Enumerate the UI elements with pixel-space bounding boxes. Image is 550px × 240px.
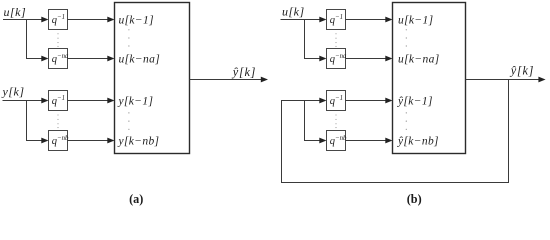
svg-text:u[k]: u[k] [4,5,27,19]
svg-text:ŷ[k]: ŷ[k] [509,64,534,78]
wire: yhat q^-1 to regressor box (b) [346,98,393,104]
wire: u branch down to q^-na (a) [27,20,34,59]
svg-text:u[k−1]: u[k−1] [398,14,433,26]
wire: feedback branch into q^-nb (b) [310,138,327,144]
wire: u branch down to q^-na (b) [305,20,312,59]
wire: feedback loop yhat (b) [282,80,509,183]
wire: feedback into q^-1 (b) [286,98,327,104]
wire: output yhat[k] (b) [466,77,546,83]
dots between yhat delay blocks (b) [335,114,336,128]
dots between u delay blocks (a) [57,33,58,47]
svg-text:ŷ[k−1]: ŷ[k−1] [397,96,433,108]
svg-text:y[k]: y[k] [2,85,25,99]
svg-text:u[k]: u[k] [282,4,305,18]
delay block q^-1 (yhat path, b) [327,91,346,111]
svg-text:(b): (b) [407,192,422,206]
regressor box (b) [393,3,466,154]
delay block q^-1 (y path, a) [49,91,68,111]
delay block q^-na (b) [327,49,348,69]
wire: q^-na to regressor box (a) [68,56,115,62]
wire: feedback branch down to q^-nb (b) [305,101,312,141]
dots yhat[k-1]..yhat[k-nb] (b) [406,112,407,130]
wire: u[k] input to q^-1 (a) [3,17,49,23]
wire: q^-nb to regressor box (a) [68,138,115,144]
wire: q^-1 to regressor box (a) [68,17,115,23]
svg-text:u[k−na]: u[k−na] [119,53,161,65]
svg-text:u[k−na]: u[k−na] [398,53,440,65]
wire: y branch into q^-nb (a) [32,138,49,144]
wire: q^-1 to regressor box (b) [346,17,393,23]
svg-text:ŷ[k−nb]: ŷ[k−nb] [397,135,439,147]
wire: y q^-1 to regressor box (a) [68,98,115,104]
dots between u delay blocks (b) [335,33,336,47]
dots u[k-1]..u[k-na] (a) [128,29,129,46]
wire: u branch into q^-na (b) [310,56,327,62]
dots between y delay blocks (a) [57,114,58,128]
wire: q^-na to regressor box (b) [346,56,393,62]
svg-text:u[k−1]: u[k−1] [119,14,154,26]
wire: y[k] input to q^-1 (a) [3,98,49,104]
dots y[k-1]..y[k-nb] (a) [128,112,129,130]
delay block q^-na (a) [49,49,70,69]
svg-text:y[k−nb]: y[k−nb] [118,135,160,147]
regressor box (a) [115,3,190,154]
delay block q^-nb (b) [327,131,348,151]
wire: output yhat[k] (a) [190,77,269,83]
delay block q^-nb (a) [49,131,70,151]
svg-text:(a): (a) [129,192,143,206]
svg-text:ŷ[k]: ŷ[k] [231,65,256,79]
wire: u branch into q^-na (a) [32,56,49,62]
wire: q^-nb to regressor box (b) [346,138,393,144]
wire: u[k] input to q^-1 (b) [281,17,327,23]
delay block q^-1 (u path, b) [327,10,346,30]
delay block q^-1 (u path, a) [49,10,68,30]
dots u[k-1]..u[k-na] (b) [406,29,407,46]
svg-text:y[k−1]: y[k−1] [118,96,154,108]
wire: y branch down to q^-nb (a) [27,101,34,141]
